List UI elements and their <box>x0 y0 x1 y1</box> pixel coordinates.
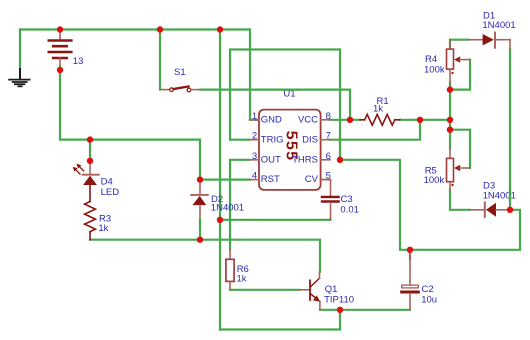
wire R5 top <box>449 130 451 149</box>
wire R6 base link <box>230 289 299 291</box>
resistor R3 <box>85 185 96 240</box>
junction C2 top node <box>407 247 413 253</box>
svg-text:OUT: OUT <box>261 154 281 165</box>
potentiometer R5 <box>447 149 471 191</box>
junction D3 anode / D1 rail <box>507 207 513 213</box>
junction RST / D2 top <box>197 176 203 182</box>
junction THRS pin6 / TRIG link <box>337 157 343 163</box>
svg-text:GND: GND <box>261 114 282 125</box>
wire TRIG link <box>230 50 340 160</box>
diode D2 <box>191 180 208 240</box>
svg-text:6: 6 <box>326 151 331 162</box>
svg-text:2: 2 <box>252 131 257 142</box>
wire R1 right to R4 node <box>400 119 450 121</box>
wire S1 to VCC <box>200 90 350 120</box>
svg-text:DIS: DIS <box>302 134 318 145</box>
wire emitter node <box>320 309 410 311</box>
wire C2 top lead <box>409 250 411 259</box>
junction left rail / top rail <box>217 26 223 32</box>
switch S1 <box>160 86 200 91</box>
U1 pin labels <box>261 114 319 185</box>
wire GND pin1 drop <box>250 30 258 120</box>
svg-text:D11N4001: D11N4001 <box>482 11 515 31</box>
svg-text:D21N4001: D21N4001 <box>211 194 244 214</box>
junction left rail / C3 bottom wire <box>217 217 223 223</box>
svg-text:VCC: VCC <box>298 114 318 125</box>
svg-text:R31k: R31k <box>98 213 111 234</box>
wire R3/D2 bottom to collector <box>90 240 320 272</box>
wire RST to D2 <box>200 179 250 181</box>
wire D1 cathode rail <box>509 49 511 210</box>
svg-text:THRS: THRS <box>292 154 318 165</box>
wire bottom return <box>220 310 340 330</box>
wire R5 bottom to D3 <box>450 190 470 210</box>
svg-text:R61k: R61k <box>237 264 249 285</box>
wire LED top <box>89 140 91 161</box>
diode D3 <box>470 202 510 217</box>
wire R4 top corner <box>450 40 469 49</box>
junction Q1 emitter node <box>337 307 343 313</box>
svg-text:Q1TIP110: Q1TIP110 <box>324 284 354 305</box>
svg-text:4: 4 <box>252 171 257 182</box>
svg-text:CV: CV <box>305 174 319 185</box>
wire OUT drop to R6 <box>230 160 250 250</box>
capacitor C2 <box>402 250 419 310</box>
555 timer U1 body <box>259 110 321 190</box>
wire THRS to C2 node <box>340 160 520 250</box>
junction LED branch / battery negative wire <box>87 136 93 142</box>
ground <box>9 69 30 86</box>
wire battery negative to D2 top <box>60 66 200 180</box>
wire rail x=220 <box>219 30 221 330</box>
svg-text:8: 8 <box>326 111 331 122</box>
svg-text:C30.01: C30.01 <box>340 194 359 216</box>
svg-text:R4100k: R4100k <box>424 54 445 76</box>
junction VCC pin8 / R1 left <box>347 117 353 123</box>
wire CV corner <box>321 179 331 181</box>
U1 pin numbers <box>252 111 331 182</box>
svg-text:S1: S1 <box>174 67 186 78</box>
U1 pin stubs <box>250 120 331 180</box>
junction LED anode pin <box>87 158 93 164</box>
battery B1 <box>49 30 72 67</box>
wire ground riser <box>19 30 21 70</box>
diode D1 <box>469 33 510 49</box>
svg-text:C210u: C210u <box>421 284 437 306</box>
wire VCC to R1 <box>330 119 360 121</box>
junction battery negative pin <box>57 67 63 73</box>
resistor R6 <box>226 249 234 289</box>
svg-text:1: 1 <box>252 111 257 122</box>
wire R4 wiper return <box>450 60 470 90</box>
resistor R1 <box>360 114 400 125</box>
junction R5 top / wiper return <box>447 127 453 133</box>
junction R1 right / DIS tap <box>417 117 423 123</box>
junction S1 branch / top rail <box>157 26 163 32</box>
wire R4 node chain <box>449 82 451 129</box>
wire overdraw above labels <box>509 189 511 200</box>
svg-text:7: 7 <box>326 131 331 142</box>
junction R4 bottom / wiper return <box>447 86 453 92</box>
junction D2 bottom / R3 wire <box>197 237 203 243</box>
wire S1 riser <box>159 30 161 90</box>
junction battery positive / top rail <box>57 26 63 32</box>
svg-text:RST: RST <box>261 174 280 185</box>
junction R1 wire / R4-R5 node <box>447 117 453 123</box>
transistor Q1 <box>299 272 320 310</box>
LED D4 <box>73 161 99 185</box>
svg-text:TRIG: TRIG <box>261 134 284 145</box>
wire DIS <box>330 120 420 140</box>
svg-text:R5100k: R5100k <box>424 165 445 186</box>
potentiometer R4 <box>447 40 471 83</box>
wire C3 bottom <box>220 219 331 221</box>
svg-text:D4LED: D4LED <box>101 177 120 198</box>
wire top rail <box>20 28 250 30</box>
svg-text:13: 13 <box>73 56 84 67</box>
capacitor C3 <box>322 180 339 220</box>
svg-text:R11k: R11k <box>373 96 389 114</box>
svg-text:3: 3 <box>252 151 257 162</box>
wire R5 wiper return <box>450 130 470 168</box>
